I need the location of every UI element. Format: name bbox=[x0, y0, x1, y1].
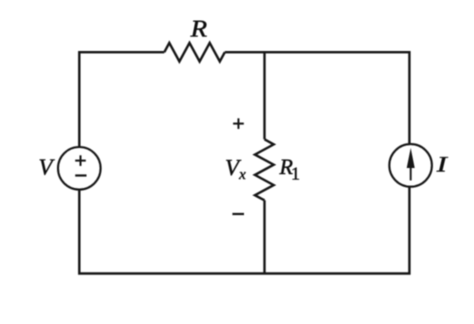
wire middle branch bottom bbox=[263, 200, 265, 273]
label minus below Vx bbox=[232, 213, 244, 215]
current source arrow bbox=[407, 148, 415, 180]
svg-text:R1: R1 bbox=[279, 154, 300, 184]
resistor R1 bbox=[255, 139, 274, 200]
label plus above Vx bbox=[233, 118, 244, 129]
wire middle branch top bbox=[263, 52, 265, 139]
voltage source minus sign bbox=[75, 174, 86, 176]
resistor R bbox=[164, 43, 225, 62]
voltage source V circle bbox=[58, 147, 101, 190]
wire bottom rail bbox=[79, 188, 409, 274]
wire top-left: from V source top up and right to resistor R bbox=[79, 52, 164, 146]
svg-text:Vx: Vx bbox=[225, 155, 246, 183]
current source I circle bbox=[389, 144, 432, 187]
wire top-right: from resistor R to top-right corner down to I source bbox=[225, 52, 410, 143]
svg-text:V: V bbox=[39, 155, 56, 180]
svg-text:R: R bbox=[189, 17, 207, 43]
svg-text:I: I bbox=[435, 152, 449, 177]
voltage source plus sign bbox=[75, 155, 86, 166]
